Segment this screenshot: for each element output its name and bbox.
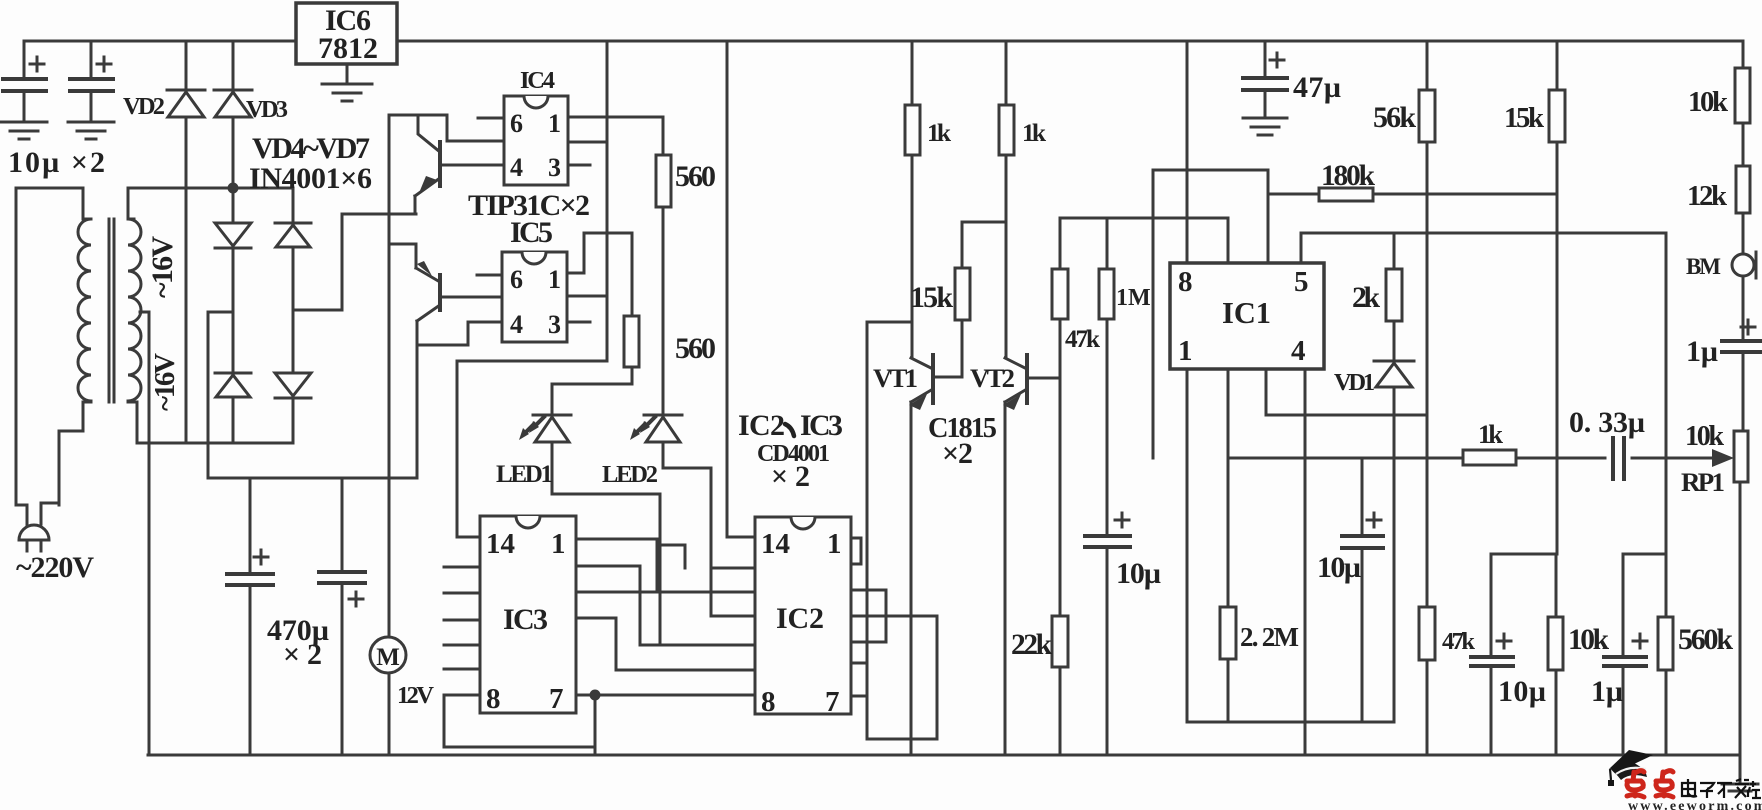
svg-text:6: 6 [510, 109, 523, 138]
svg-text:7812: 7812 [318, 32, 378, 65]
wire bracket 10u 10k [1491, 554, 1556, 755]
WIRES_TOP [148, 41, 1739, 755]
svg-text:M: M [376, 644, 400, 671]
svg-text:10µ: 10µ [1498, 675, 1546, 708]
plus signs [30, 53, 1755, 648]
svg-text:IC4: IC4 [520, 67, 555, 94]
resistor R1k no1 leads [911, 41, 914, 358]
svg-text:2. 2M: 2. 2M [1240, 622, 1299, 652]
wire bridge right mid tap [293, 214, 342, 310]
wire mesh row5 [640, 644, 755, 647]
svg-text:15k: 15k [910, 281, 953, 314]
resistor 10k top right body [1735, 68, 1750, 123]
wire 2.2M column [1227, 369, 1230, 722]
svg-text:7: 7 [549, 683, 564, 715]
transistor VT2 diagonals [1005, 358, 1027, 402]
wire IC2 pin14 column [727, 41, 755, 537]
wire 47k top [1059, 218, 1062, 269]
diode VD7 symbol [275, 373, 311, 398]
resistor 180k body [1319, 188, 1373, 201]
led LED1 symbol [519, 415, 571, 442]
wire IC2 right loop [851, 590, 886, 642]
svg-text:IC1: IC1 [1222, 295, 1271, 330]
svg-text:10k: 10k [1688, 86, 1728, 118]
wire mesh row3 [576, 591, 755, 594]
capacitor 10u bottom plates [1471, 657, 1513, 666]
svg-text:1k: 1k [927, 118, 952, 147]
wire right edge column [1740, 41, 1743, 755]
wire IC5 pin3 stub [567, 321, 590, 324]
potentiometer RP1 body [1734, 431, 1748, 482]
diode VD4 symbol [215, 223, 251, 248]
capacitor C4 470u plates [319, 572, 365, 583]
resistor 560 no2 bottom lead [552, 367, 632, 415]
wire IC1 pin4 column [1304, 369, 1307, 755]
svg-text:IC3: IC3 [800, 409, 843, 442]
wire IC2 pin1 tie [851, 538, 861, 564]
ic IC1 box [1170, 263, 1324, 369]
transformer core [109, 219, 114, 402]
optocoupler IC4 box [504, 96, 568, 185]
ic IC2 box [755, 517, 851, 714]
diode VD1 symbol [1374, 361, 1414, 387]
capacitor 10u right plates [1342, 536, 1383, 548]
transistor Q2 TIP31C emitter diag [416, 268, 440, 282]
led LED1 lower lead [552, 442, 660, 645]
svg-text:7: 7 [825, 686, 840, 718]
potentiometer RP1 wiper arrow [1712, 449, 1734, 467]
WIRES_RIGHT [3, 78, 1762, 666]
svg-text:1: 1 [548, 109, 561, 138]
wire y218 row [1060, 217, 1228, 220]
led LED2 symbol [630, 415, 682, 442]
resistor 56k 47k column [1426, 41, 1429, 755]
transformer primary coil [78, 219, 91, 402]
svg-text:~16V: ~16V [146, 236, 179, 298]
wire 47k bottom to VT2 base [1029, 319, 1060, 378]
svg-text:12k: 12k [1687, 180, 1727, 212]
svg-text:4: 4 [1291, 335, 1306, 367]
resistor 560 no1 body [656, 155, 671, 207]
wire mesh row1 [576, 539, 657, 592]
wire y458 row [1228, 457, 1714, 460]
diode VD1 column down [1393, 387, 1396, 722]
svg-text:1: 1 [551, 528, 566, 560]
resistor 1k horizontal body [1463, 450, 1516, 465]
microphone BM symbol [1732, 252, 1756, 278]
transformer secondary top lead [127, 188, 130, 219]
svg-text:10k: 10k [1685, 421, 1724, 452]
wire IC4 pin6 stub [478, 117, 504, 120]
wire IC5 pin4 link [417, 322, 502, 478]
mains plug leads [16, 188, 59, 526]
wire mesh row6 [616, 669, 755, 672]
wire pin7 column to rail [594, 695, 597, 755]
capacitor C_b 10u plates [70, 79, 113, 91]
wire top power rail left of IC6 [24, 40, 296, 43]
capacitor C_a 10u plates [3, 79, 46, 91]
wire T1 emitter row to bridge [342, 213, 416, 216]
svg-text:14: 14 [486, 528, 515, 560]
resistor 47k mid body [1052, 269, 1068, 319]
wire 15k top jog [962, 222, 1006, 268]
capacitor 1u right plates [1722, 341, 1762, 352]
svg-text:0. 33µ: 0. 33µ [1569, 406, 1645, 439]
wire y170 row [1153, 170, 1268, 458]
wire y415 row [1266, 369, 1427, 415]
svg-text:10µ: 10µ [1317, 551, 1361, 584]
svg-text:6: 6 [510, 265, 523, 294]
wire mesh row2 [576, 566, 640, 645]
svg-text:VD2: VD2 [123, 93, 165, 120]
wire IC1 pin5 to 2k row y233 [1301, 233, 1666, 263]
resistor 2.2M body [1220, 607, 1236, 659]
svg-text:1M: 1M [1116, 285, 1151, 311]
capacitor 47u plates [1243, 78, 1287, 90]
wire x1666 column [1665, 233, 1668, 755]
ground under C_b [68, 122, 114, 139]
svg-text:LED2: LED2 [602, 461, 658, 488]
capacitor C4 470u leads [341, 478, 344, 755]
svg-text:560: 560 [675, 160, 716, 193]
resistor 47k bottom body [1419, 607, 1435, 660]
capacitor 10u mid plates [1085, 536, 1130, 547]
wire 22k column [1059, 378, 1062, 755]
svg-text:8: 8 [761, 686, 776, 718]
wire mesh jog [659, 545, 685, 568]
wire 470u caps top rail [208, 477, 417, 480]
svg-text:10µ: 10µ [1116, 557, 1161, 590]
wire IC2 pin7 stub [851, 663, 867, 696]
resistor 180k row [1268, 193, 1557, 196]
svg-text:22k: 22k [1011, 629, 1053, 661]
regulator IC6 7812 box [296, 3, 397, 64]
capacitor C3 470u plates [227, 574, 273, 585]
wire 1M column [1106, 218, 1109, 755]
svg-text:IC5: IC5 [510, 216, 553, 249]
resistor 22k body [1052, 616, 1068, 667]
svg-text:2k: 2k [1352, 282, 1380, 314]
svg-text:IC2: IC2 [738, 409, 785, 442]
transistor Q2 collector diag [417, 305, 440, 345]
resistor 56k body [1419, 90, 1435, 142]
wire IC5 pin6 stub [477, 274, 502, 277]
svg-text:~16V: ~16V [149, 353, 181, 411]
svg-text:1k: 1k [1478, 419, 1503, 449]
ground below rail right [1739, 755, 1742, 784]
svg-text:180k: 180k [1321, 160, 1376, 192]
svg-text:www.eeworm.com: www.eeworm.com [1628, 799, 1762, 810]
transistor VT2 base bar [1025, 355, 1029, 403]
transistor Q1 TIP31C collector diag [418, 115, 440, 152]
wire VT2 emitter column [1004, 402, 1007, 755]
svg-text:560k: 560k [1678, 623, 1733, 656]
transformer primary bottom lead [59, 402, 83, 505]
wire vertical from node to bridge bottom [185, 188, 188, 443]
svg-text:10k: 10k [1568, 624, 1610, 656]
resistor 1M body [1099, 269, 1114, 319]
transformer secondary bottom lead [136, 402, 139, 443]
svg-text:4: 4 [510, 310, 523, 339]
resistor 560 no2 body [624, 316, 639, 367]
ic IC3 box [480, 516, 576, 713]
wire IC3 pin7 row to IC2 pin8 [576, 694, 755, 697]
transistor VT1 base bar [931, 355, 935, 403]
wire IC4 pin1 to 560 no1 [568, 117, 663, 155]
ground under C_a [1, 122, 47, 139]
svg-text:1: 1 [548, 265, 561, 294]
resistor 1k no1 body [905, 105, 920, 155]
transformer secondary center tap [140, 312, 149, 755]
led LED2 lower lead [663, 442, 711, 616]
transistor Q2 arrow [417, 261, 432, 276]
wire IC5 mid right to rail column [567, 295, 607, 298]
mains plug symbol [19, 525, 49, 551]
svg-text:×2: ×2 [942, 437, 973, 470]
wire IC3 left stubs [444, 567, 480, 669]
svg-text:1: 1 [827, 528, 842, 560]
diode VD2 column [185, 41, 188, 188]
svg-text:VD3: VD3 [246, 96, 288, 123]
wire IC4 mid right to rail column [568, 141, 607, 144]
wire IC2 pin left rows [711, 568, 755, 616]
wire IC1 pin1 column [1186, 369, 1189, 722]
transistor Q1 arrow [419, 176, 437, 193]
svg-text:560: 560 [675, 332, 716, 365]
svg-text:IN4001×6: IN4001×6 [249, 162, 372, 195]
resistor 2k leads [1393, 233, 1396, 361]
resistor 12k body [1736, 166, 1750, 213]
svg-text:3: 3 [548, 153, 561, 182]
svg-text:~220V: ~220V [16, 551, 94, 584]
bridge right column VD5 [292, 188, 295, 443]
svg-text:BM: BM [1686, 254, 1721, 279]
svg-text:IC2: IC2 [776, 602, 824, 635]
optocoupler IC5 box [502, 252, 567, 342]
svg-text:47k: 47k [1065, 326, 1100, 353]
wire bridge bottom horizontal [137, 442, 293, 445]
wire VT1 emitter column [910, 402, 913, 755]
wire x867 column [866, 322, 869, 739]
svg-text:12V: 12V [397, 682, 434, 709]
capacitor 47u leads and grounds [1264, 41, 1267, 118]
wire 15k bottom to VT1 base [934, 320, 962, 377]
transistor VT2 arrow [1003, 394, 1021, 410]
svg-text:10µ ×2: 10µ ×2 [8, 146, 105, 179]
svg-text:1µ: 1µ [1686, 335, 1718, 368]
diode VD3 symbol [214, 90, 252, 117]
wire top power rail right of IC6 [397, 40, 1743, 43]
wire T2 emitter link [389, 244, 416, 268]
svg-text:VD1: VD1 [1334, 369, 1375, 396]
resistor 2k body [1386, 269, 1402, 321]
svg-text:47k: 47k [1442, 628, 1475, 655]
transistor Q1 base bar [438, 142, 442, 186]
WIRES_LEFT [444, 41, 1268, 755]
wire IC2 row616 to x937 [851, 616, 937, 739]
wire bottom ground rail [148, 754, 1739, 757]
transistor VT1 arrow [909, 394, 927, 410]
svg-text:VT2: VT2 [970, 363, 1015, 393]
capacitor C_a 10u (left) lead [23, 41, 26, 122]
WIRES_MID [1187, 41, 1758, 791]
wire x867 to VT1 collector [867, 321, 912, 324]
bridge left column VD4 [232, 188, 235, 443]
transistor Q1 base to IC4 pin4 [440, 164, 504, 167]
resistor 15k right body [1549, 90, 1565, 142]
svg-text:RP1: RP1 [1681, 467, 1725, 497]
svg-text:8: 8 [486, 683, 501, 715]
svg-text:4: 4 [510, 153, 523, 182]
transistor Q1 emitter diag [415, 178, 440, 214]
diode VD2 symbol [167, 90, 205, 117]
capacitor 1u bottom plates [1604, 657, 1646, 666]
resistor 10k bottom body [1548, 617, 1563, 670]
transistor Q2 base to IC5 [440, 296, 502, 299]
diode VD5 symbol [275, 223, 311, 247]
svg-text:CD4001: CD4001 [757, 441, 830, 467]
transistor Q2 base bar [438, 275, 442, 310]
wire y739 link [867, 738, 937, 741]
svg-text:5: 5 [1294, 266, 1309, 298]
wire IC5 pin1 to 560 no2 [567, 233, 632, 316]
svg-text:56k: 56k [1373, 101, 1416, 134]
svg-text:1: 1 [1178, 335, 1193, 367]
node pin7 junction dot [590, 690, 601, 701]
capacitor C_b 10u (second) lead [90, 41, 93, 122]
ground under IC6 [322, 64, 372, 101]
wire y722 row [1187, 721, 1394, 724]
svg-text:14: 14 [761, 528, 790, 560]
svg-text:15k: 15k [1504, 102, 1544, 134]
wire rail column x607 [457, 41, 607, 537]
svg-text:LED1: LED1 [496, 461, 553, 488]
svg-text:IC3: IC3 [503, 603, 548, 636]
svg-text:VT1: VT1 [873, 363, 918, 393]
diode VD6 symbol [215, 373, 251, 397]
diode VD3 column [232, 41, 235, 188]
wire IC3 pin8 [444, 695, 595, 747]
resistor 560k body [1658, 617, 1673, 670]
wire secondary-top node row [128, 187, 293, 190]
capacitor 10u right leads [1361, 458, 1364, 722]
svg-text:8: 8 [1178, 266, 1193, 298]
motor M symbol [370, 637, 406, 673]
wire T1 collector top [389, 115, 504, 141]
wire motor column [388, 115, 391, 755]
svg-text:VD4~VD7: VD4~VD7 [252, 132, 370, 165]
node A junction dot [228, 183, 239, 194]
watermark black site name glyphs [1682, 779, 1761, 798]
resistor 1k no2 body [999, 105, 1014, 155]
resistor R1k no2 leads [1005, 41, 1008, 358]
svg-text:1µ: 1µ [1591, 675, 1623, 708]
watermark red chong chong [1627, 771, 1673, 797]
wire bracket 1u 560k [1623, 554, 1666, 755]
watermark logo graduation cap [1608, 750, 1653, 786]
svg-text:47µ: 47µ [1293, 71, 1341, 104]
wire IC1 top feeds [1187, 41, 1268, 263]
svg-text:3: 3 [548, 310, 561, 339]
wire mesh row4 [576, 618, 616, 670]
capacitor C3 470u leads [249, 478, 252, 755]
resistor 560 no1 bottom lead to LED2 [662, 207, 665, 415]
resistor 15k mid body [955, 268, 970, 320]
ground under 47u [1243, 118, 1287, 135]
transformer primary top lead [16, 188, 83, 219]
wire IC4 pin3 stub [568, 164, 590, 167]
transistor VT1 diagonals [911, 358, 933, 402]
transformer secondary coil [128, 219, 141, 408]
resistor 15k right column [1556, 41, 1559, 554]
wire bridge left mid tap [208, 312, 233, 478]
capacitor 0.33u plates [1613, 438, 1624, 479]
svg-text:1k: 1k [1022, 118, 1047, 147]
